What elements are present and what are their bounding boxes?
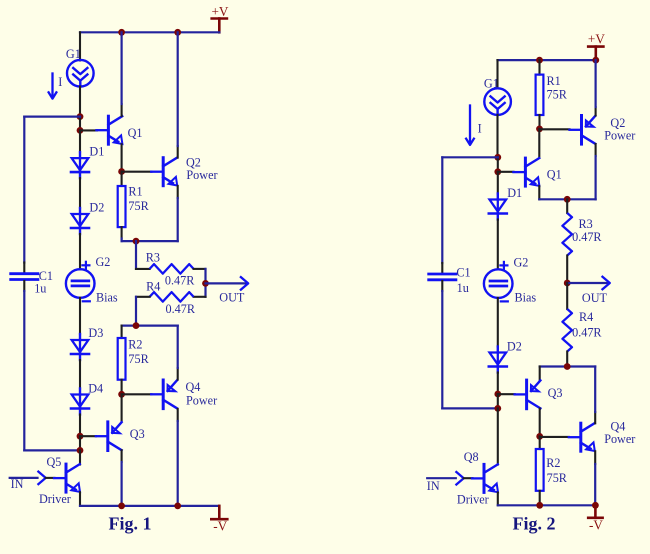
svg-text:-V: -V xyxy=(589,517,603,532)
diode D2 xyxy=(71,201,104,235)
svg-text:R3: R3 xyxy=(146,251,160,265)
wire +V rail Fig.2 xyxy=(498,59,596,61)
node R4 bottom junction Fig.2 xyxy=(564,363,571,370)
wire Q4 base Fig.2 xyxy=(540,436,569,438)
wire node down to R3 xyxy=(135,241,137,269)
node rail-Q4 -V junction Fig.2 xyxy=(592,502,599,509)
node C1 top junction xyxy=(77,113,84,120)
transistor Q2 (Fig.2) xyxy=(570,116,636,145)
node upper output junction xyxy=(133,238,140,245)
svg-text:C1: C1 xyxy=(456,266,470,280)
svg-text:D2: D2 xyxy=(89,201,104,215)
arrow IN Fig.2 xyxy=(456,471,464,485)
wire G2 to D2 Fig.2 xyxy=(497,298,499,347)
wire D1 to D2 xyxy=(79,178,81,208)
svg-text:Q1: Q1 xyxy=(547,168,562,182)
svg-text:0.47R: 0.47R xyxy=(165,273,195,287)
wire R4 right pin xyxy=(194,296,206,298)
power +V (Fig.1) xyxy=(212,4,229,33)
wire Q4 base xyxy=(122,393,152,395)
svg-text:Q3: Q3 xyxy=(548,386,563,400)
node C1 top junction Fig.2 xyxy=(494,154,501,161)
wire R2 top pin xyxy=(121,326,123,338)
wire R3 bottom pin Fig.2 xyxy=(566,256,568,284)
node rail-Q1 junction xyxy=(118,29,125,36)
wire OUT arrow xyxy=(206,276,249,304)
wire Q1 base xyxy=(80,129,97,131)
wire Q2 collector down Fig.2 xyxy=(595,144,597,199)
transistor Q2 xyxy=(151,156,217,186)
wire Q3 emitter pin Fig.2 xyxy=(539,367,541,381)
wire Q2 base xyxy=(122,171,152,173)
node Q3 base junction Fig.2 xyxy=(494,391,501,398)
svg-text:D3: D3 xyxy=(88,326,103,340)
wire -V rail Fig.2 xyxy=(498,504,596,506)
wire C1 bottom horizontal xyxy=(24,449,80,451)
capacitor C1 (Fig.2) xyxy=(429,266,471,295)
resistor R1 xyxy=(118,184,150,227)
wire G2 to D3 xyxy=(79,298,81,334)
transistor Q3 xyxy=(96,422,145,451)
svg-text:+V: +V xyxy=(588,31,605,46)
node lower output junction xyxy=(133,322,140,329)
svg-text:I: I xyxy=(58,75,62,89)
diode D4 xyxy=(71,382,103,415)
svg-text:I: I xyxy=(478,122,482,136)
resistor R4 xyxy=(146,279,196,316)
node OUT junction Fig.2 xyxy=(564,280,571,287)
svg-text:G2: G2 xyxy=(514,256,529,270)
svg-text:OUT: OUT xyxy=(219,290,245,304)
svg-text:-V: -V xyxy=(213,518,227,533)
wire node to node Fig.2 xyxy=(497,157,499,172)
power -V (Fig.2) xyxy=(588,505,603,532)
transistor Q4 (Fig.2) xyxy=(569,420,636,452)
wire D3 to D4 xyxy=(79,360,81,389)
diode D1 (Fig.2) xyxy=(489,186,522,220)
svg-text:75R: 75R xyxy=(547,471,568,485)
wire IN to Q8 base Fig.2 xyxy=(464,477,473,479)
wire C1 lower vertical xyxy=(23,281,25,450)
svg-text:R1: R1 xyxy=(547,74,561,88)
wire Q2 collector xyxy=(177,32,179,157)
svg-text:Fig. 2: Fig. 2 xyxy=(513,514,556,534)
svg-text:R2: R2 xyxy=(546,456,560,470)
wire -V rail Fig.1 xyxy=(80,505,219,507)
wire Q2 base Fig.2 xyxy=(540,128,570,130)
power +V (Fig.2) xyxy=(588,31,605,60)
svg-text:D1: D1 xyxy=(507,186,522,200)
resistor R2 (Fig.2) xyxy=(536,449,568,491)
svg-text:75R: 75R xyxy=(128,199,149,213)
wire OUT arrow Fig.2 xyxy=(567,276,610,305)
wire R4 left pin xyxy=(136,296,150,298)
wire Q3 collector down Fig.2 xyxy=(539,409,541,437)
wire R3 top pin Fig.2 xyxy=(566,199,568,213)
svg-text:Q1: Q1 xyxy=(128,126,143,140)
transistor Q5 xyxy=(39,455,80,506)
wire Q4 emitter up xyxy=(177,326,179,380)
transistor Q1 xyxy=(96,116,142,144)
node rail-Q2 junction xyxy=(174,29,181,36)
svg-text:Q4: Q4 xyxy=(186,380,201,394)
wire Q5 emitter to rail xyxy=(79,492,81,506)
node rail-R2 junction Fig.2 xyxy=(536,502,543,509)
wire node to node lower xyxy=(79,436,81,450)
svg-text:D1: D1 xyxy=(89,144,104,158)
node R1 bottom junction Fig.2 xyxy=(536,125,543,132)
svg-text:G1: G1 xyxy=(484,76,499,90)
current source G1 xyxy=(66,47,94,87)
wire G1 top pin xyxy=(79,32,81,60)
node rail corner +V junction xyxy=(592,57,599,64)
svg-text:Q5: Q5 xyxy=(47,455,62,469)
capacitor C1 xyxy=(11,269,53,296)
diode D2 (Fig.2) xyxy=(489,340,522,373)
wire C1 top horizontal xyxy=(24,115,80,117)
node rail-Q4 junction xyxy=(174,503,181,510)
svg-text:Bias: Bias xyxy=(515,291,537,305)
svg-text:D2: D2 xyxy=(507,340,522,354)
svg-text:Driver: Driver xyxy=(39,492,71,506)
svg-text:OUT: OUT xyxy=(582,291,608,305)
bias source G2 (Fig.2) xyxy=(484,256,537,305)
wire Q1 base Fig.2 xyxy=(498,171,514,173)
wire C1 lower vertical Fig.2 xyxy=(441,281,443,408)
wire R4 bottom pin Fig.2 xyxy=(566,352,568,367)
wire +V rail Fig.1 xyxy=(80,31,219,33)
svg-text:Q8: Q8 xyxy=(464,450,479,464)
wire node to node xyxy=(79,117,81,131)
transistor Q3 (Fig.2) xyxy=(515,380,563,409)
wire C1 bottom horizontal Fig.2 xyxy=(442,407,498,409)
wire Q8 collector up Fig.2 xyxy=(497,408,499,464)
svg-text:Bias: Bias xyxy=(96,290,118,304)
svg-text:Power: Power xyxy=(604,432,635,446)
wire Q3 base xyxy=(80,435,96,437)
arrow IN xyxy=(38,471,46,485)
wire C1 upper vertical xyxy=(23,117,25,272)
svg-text:Power: Power xyxy=(604,129,635,143)
wire IN to Q5 base xyxy=(46,477,55,479)
wire IN lead xyxy=(10,477,38,491)
bias source G2 xyxy=(66,255,118,304)
node C1 bottom junction xyxy=(77,447,84,454)
resistor R2 xyxy=(118,338,150,380)
wire G1 top pin Fig.2 xyxy=(496,60,498,88)
svg-text:0.47R: 0.47R xyxy=(572,230,602,244)
resistor R4 (Fig.2) xyxy=(562,309,602,352)
wire Q3 collector to node xyxy=(121,394,123,421)
wire chain dot2 to D1 xyxy=(79,130,81,152)
wire D2 to Q3 base node Fig.2 xyxy=(497,373,499,395)
wire Q3 emitter down xyxy=(121,450,123,506)
wire Q3/Q4 node row Fig.2 xyxy=(540,365,596,367)
node Q4 base junction Fig.2 xyxy=(536,433,543,440)
wire Q4 collector down xyxy=(177,409,179,506)
wire Q2 emitter down xyxy=(177,186,179,241)
wire R2 top pin Fig.2 xyxy=(539,436,541,449)
node R1 top junction xyxy=(118,168,125,175)
svg-text:1u: 1u xyxy=(34,282,46,296)
wire OUT node vertical xyxy=(204,269,206,297)
resistor R1 (Fig.2) xyxy=(536,74,568,115)
arrow I current direction Fig.2 xyxy=(466,106,482,145)
svg-text:R1: R1 xyxy=(128,184,142,198)
wire G1 to node xyxy=(79,87,81,117)
svg-text:1u: 1u xyxy=(457,281,469,295)
wire C1 upper vertical Fig.2 xyxy=(441,157,443,273)
svg-text:R4: R4 xyxy=(579,310,593,324)
svg-text:0.47R: 0.47R xyxy=(572,325,602,339)
node rail-R1 junction xyxy=(536,57,543,64)
wire R1 bottom pin Fig.2 xyxy=(538,115,540,129)
wire R3 right pin xyxy=(194,268,206,270)
node rail-Q3 junction xyxy=(118,503,125,510)
svg-text:R4: R4 xyxy=(146,279,160,293)
svg-text:Fig. 1: Fig. 1 xyxy=(109,514,152,534)
wire Q4 collector up Fig.2 xyxy=(594,367,596,424)
wire D4 to Q3 base node xyxy=(79,415,81,437)
wire Q1 emitter to R1 node xyxy=(121,144,123,171)
wire Q1 collector xyxy=(121,32,123,116)
wire node to node lower Fig.2 xyxy=(497,394,499,408)
transistor Q8 (Fig.2) xyxy=(457,450,498,507)
transistor Q1 (Fig.2) xyxy=(513,158,561,186)
wire D1 to G2 Fig.2 xyxy=(497,220,499,270)
wire lower output row xyxy=(122,325,178,327)
diode D3 xyxy=(71,326,103,360)
arrow I current direction xyxy=(48,74,62,99)
svg-text:G2: G2 xyxy=(96,255,111,269)
wire R2 bottom pin Fig.2 xyxy=(539,491,541,506)
wire R1 top pin xyxy=(121,172,123,187)
wire R1 top pin Fig.2 xyxy=(538,60,540,75)
node Q3 base junction xyxy=(77,433,84,440)
svg-text:R2: R2 xyxy=(128,338,142,352)
wire Q1 collector up Fig.2 xyxy=(538,129,540,158)
node C1 bottom junction Fig.2 xyxy=(494,405,501,412)
wire R1 bottom pin xyxy=(121,227,123,241)
wire Q2 emitter up Fig.2 xyxy=(595,60,597,115)
svg-text:75R: 75R xyxy=(128,352,149,366)
svg-text:75R: 75R xyxy=(547,88,568,102)
svg-text:0.47R: 0.47R xyxy=(166,302,196,316)
svg-text:+V: +V xyxy=(212,4,229,19)
node OUT junction xyxy=(202,280,209,287)
wire C1 top horizontal Fig.2 xyxy=(442,156,498,158)
wire Q4 emitter down Fig.2 xyxy=(594,451,596,505)
wire Q8 emitter to rail Fig.2 xyxy=(497,493,499,506)
svg-text:G1: G1 xyxy=(66,47,81,61)
svg-text:Driver: Driver xyxy=(457,493,489,507)
node Q1 base junction Fig.2 xyxy=(494,168,501,175)
wire IN lead Fig.2 xyxy=(427,478,456,493)
svg-text:D4: D4 xyxy=(88,382,103,396)
wire G1 to node Fig.2 xyxy=(496,115,498,157)
wire chain to D1 Fig.2 xyxy=(497,172,499,194)
wire R2 bottom pin xyxy=(121,380,123,395)
svg-text:R3: R3 xyxy=(579,217,593,231)
svg-text:Power: Power xyxy=(186,168,217,182)
wire R4 to lower node xyxy=(135,297,137,326)
wire Q3 base Fig.2 xyxy=(498,393,515,395)
wire Q5 collector up xyxy=(79,450,81,464)
diode D1 xyxy=(71,144,104,178)
svg-text:IN: IN xyxy=(427,479,440,493)
wire D2 to G2 xyxy=(79,234,81,269)
resistor R3 xyxy=(146,251,196,288)
current source G1 (Fig.2) xyxy=(484,76,511,115)
wire R3 left pin xyxy=(136,268,150,270)
svg-text:Power: Power xyxy=(186,393,217,407)
wire Q1 emitter down Fig.2 xyxy=(538,186,540,199)
node R3 top junction Fig.2 xyxy=(564,196,571,203)
resistor R3 (Fig.2) xyxy=(562,213,602,256)
transistor Q4 xyxy=(151,380,217,409)
power -V (Fig.1) xyxy=(211,506,227,533)
svg-text:Q3: Q3 xyxy=(130,427,145,441)
node Q1 base junction xyxy=(77,127,84,134)
svg-text:IN: IN xyxy=(11,477,24,491)
wire Q1/Q2 emitter row Fig.2 xyxy=(539,198,595,200)
node Q4 base junction xyxy=(118,391,125,398)
wire R1/Q2 emitter row xyxy=(122,240,178,242)
wire R4 top pin Fig.2 xyxy=(566,283,568,309)
